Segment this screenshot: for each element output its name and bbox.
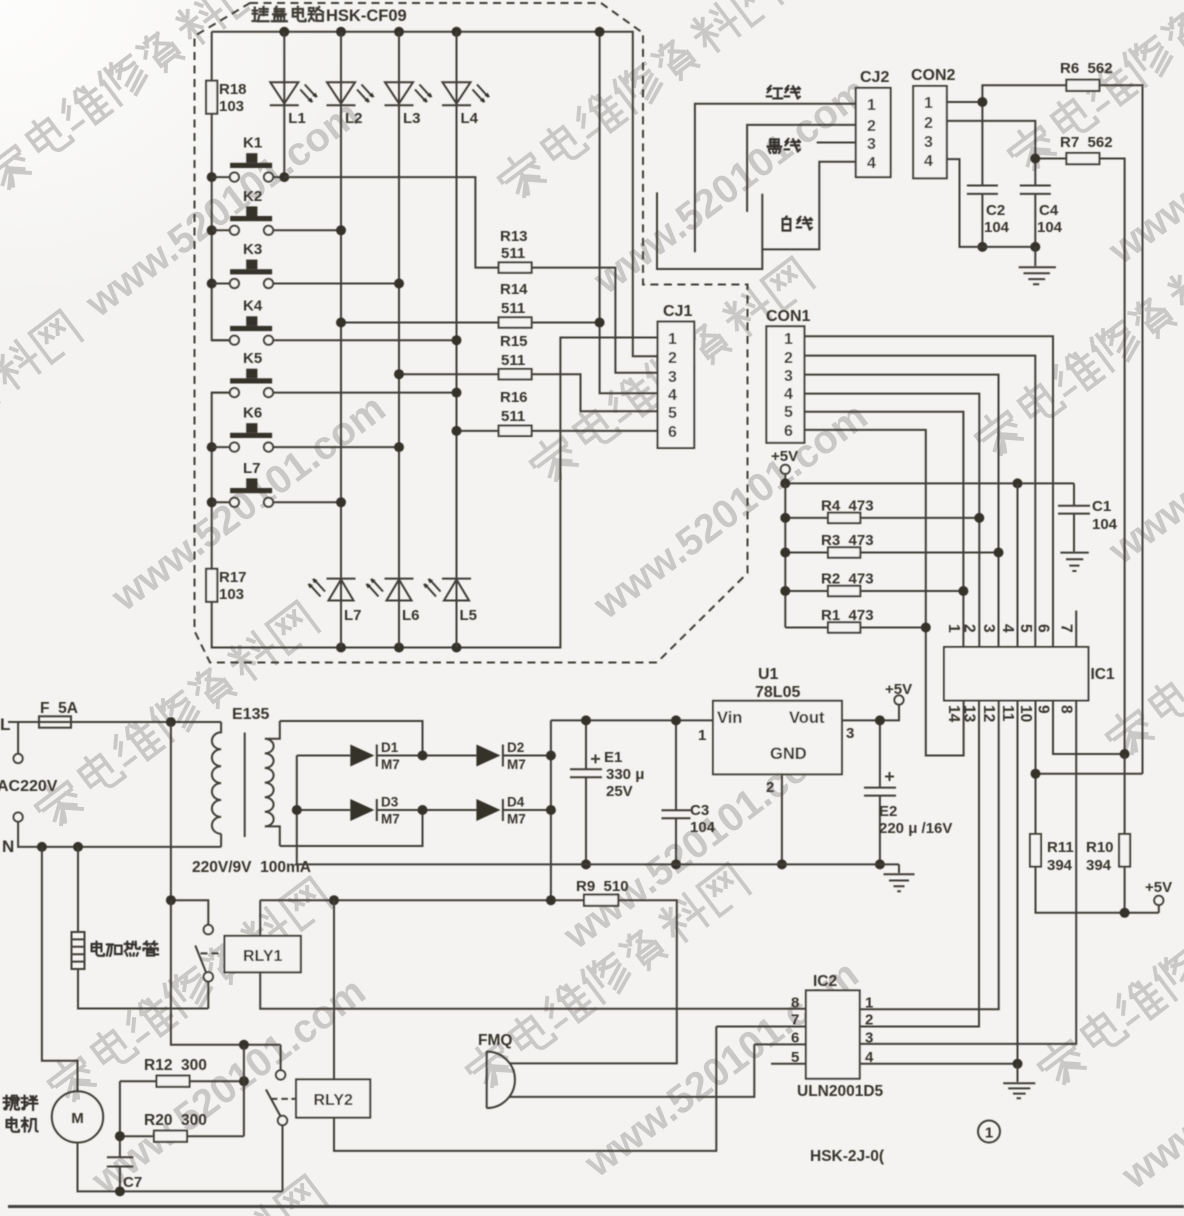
- node: key K3 column junction: [394, 279, 404, 289]
- svg-text:3: 3: [784, 368, 793, 385]
- svg-text:E2: E2: [879, 803, 897, 820]
- wire: motor bottom to RLY2 contact: [78, 1143, 283, 1192]
- LED L5: [425, 579, 472, 601]
- capacitor C2: [967, 102, 998, 247]
- wire: CON1 pin4 to IC1 pin2: [805, 394, 980, 647]
- resistor R15: [399, 374, 658, 411]
- ground symbol below C1: [1060, 553, 1088, 571]
- svg-text:11: 11: [999, 705, 1016, 722]
- svg-text:M7: M7: [507, 757, 526, 772]
- wire: bridge left (negative) leg: [297, 756, 351, 865]
- svg-text:+5V: +5V: [1145, 879, 1172, 896]
- resistor R16: [457, 430, 658, 432]
- wire: diode interconnects row2: [377, 809, 551, 811]
- note: circled 1 page marker: [978, 1121, 1000, 1143]
- wire: top rail drop to CJ1 pin4 (with R14 junction): [600, 32, 658, 393]
- wire: CON2 pin1 to C2/R6: [947, 101, 983, 103]
- svg-text:M7: M7: [381, 757, 400, 772]
- svg-text:R17: R17: [219, 569, 247, 586]
- svg-text:8: 8: [1058, 705, 1075, 714]
- wire: CJ2 pin3 stub: [817, 142, 856, 144]
- svg-text:6: 6: [1035, 624, 1052, 633]
- svg-text:CJ2: CJ2: [860, 69, 889, 86]
- node: key K2 column junction: [336, 225, 346, 235]
- resistor R10: [1124, 754, 1126, 913]
- wire: IC1 pin10 through R11 to +5V: [1036, 701, 1159, 913]
- wire: CON1 pin3 to IC1 pin3: [805, 375, 999, 647]
- svg-text:R16: R16: [500, 389, 528, 406]
- IC U?: microcontroller IC1: [944, 647, 1088, 701]
- svg-text:5: 5: [668, 405, 677, 422]
- relay contact switch for RLY2: [280, 1045, 282, 1070]
- LED L6: [367, 579, 414, 601]
- scan artifact bottom rule: [8, 1205, 1184, 1208]
- wire: K1 row to R13: [284, 177, 498, 268]
- svg-text:HSK-2J-0(: HSK-2J-0(: [810, 1148, 885, 1165]
- wire: relay coil supply rail with R9: [260, 900, 677, 1063]
- wire: L feed to RLY1 contact: [171, 900, 208, 925]
- svg-text:K4: K4: [243, 298, 263, 315]
- node: fuse output junction: [166, 717, 176, 727]
- svg-text:R6 562: R6 562: [1060, 60, 1113, 77]
- voltage regulator U1 78L05: [713, 701, 842, 775]
- svg-text:1: 1: [924, 95, 933, 112]
- capacitor C1: [1058, 483, 1090, 551]
- wire: neutral branch to motor: [42, 847, 78, 1091]
- motor M 搅拌电机: [52, 1091, 103, 1142]
- svg-text:L7: L7: [344, 607, 362, 624]
- resistor R17: [206, 569, 217, 602]
- svg-text:511: 511: [501, 352, 525, 369]
- svg-text:CJ1: CJ1: [663, 303, 692, 320]
- wire: secondary bottom to D3/D4 junction: [280, 810, 423, 846]
- wire: diode interconnects row1: [377, 755, 551, 757]
- svg-text:2: 2: [924, 115, 933, 132]
- wire: bridge right (positive) leg down to relay rail: [550, 720, 552, 900]
- wire: LED L1 column: [283, 32, 285, 177]
- node: rail junction dots: [279, 27, 289, 37]
- svg-text:5: 5: [784, 404, 793, 421]
- wire: pin10 node to R6 riser: [1036, 773, 1143, 775]
- svg-text:R14: R14: [500, 281, 528, 298]
- wire: +5V rail to C1: [785, 482, 1074, 484]
- svg-text:K6: K6: [243, 405, 262, 422]
- svg-text:M7: M7: [381, 812, 400, 827]
- svg-text:330 μ: 330 μ: [606, 766, 644, 783]
- resistor R11: [1030, 834, 1041, 867]
- svg-text:2: 2: [766, 779, 774, 796]
- svg-text:R1 473: R1 473: [821, 607, 874, 624]
- transformer E135 secondary winding: [265, 721, 280, 846]
- connector CJ1: [658, 322, 695, 448]
- svg-text:R2 473: R2 473: [821, 571, 874, 588]
- keyboard circuit HSK-CF09 dashed boundary box: [195, 3, 748, 663]
- svg-text:103: 103: [219, 586, 244, 603]
- svg-text:R3 473: R3 473: [821, 532, 874, 549]
- svg-text:C1: C1: [1092, 498, 1111, 515]
- label 黑线 (black wire): [768, 139, 800, 153]
- svg-text:5: 5: [1017, 624, 1034, 633]
- wire: neutral rail to transformer primary: [18, 822, 221, 847]
- wire: CJ2 pin2 lead: [747, 125, 856, 212]
- wire: R1-R4 left feed rail: [784, 483, 786, 627]
- wire: cable sheath outline: [657, 192, 762, 269]
- svg-text:2: 2: [867, 118, 876, 135]
- capacitor C7: [107, 1081, 133, 1191]
- label 红线 (red wire): [767, 86, 800, 99]
- label 白线 (white wire): [783, 217, 812, 231]
- svg-text:R4 473: R4 473: [821, 497, 874, 514]
- title label 键盘电路HSK-CF09: [253, 7, 324, 22]
- svg-text:12: 12: [980, 705, 997, 722]
- svg-text:4: 4: [924, 153, 933, 170]
- node: key K1 column junction: [279, 172, 289, 182]
- diode D4 M7: [476, 799, 500, 821]
- svg-text:C7: C7: [123, 1174, 142, 1191]
- wire: RLY1 coil leads: [260, 900, 806, 1009]
- svg-text:AC220V: AC220V: [0, 778, 58, 795]
- svg-text:+5V: +5V: [771, 448, 798, 465]
- svg-text:7: 7: [791, 1012, 799, 1029]
- svg-text:L: L: [0, 715, 10, 734]
- svg-text:HSK-CF09: HSK-CF09: [326, 7, 407, 25]
- svg-text:25V: 25V: [606, 783, 633, 800]
- svg-text:R9 510: R9 510: [576, 878, 629, 895]
- svg-text:Vout: Vout: [789, 709, 825, 727]
- relay RLY2 coil: [296, 1079, 370, 1117]
- relay RLY1 coil: [225, 936, 301, 972]
- svg-text:R20 300: R20 300: [144, 1112, 207, 1129]
- connector CON1: [766, 326, 804, 443]
- wire: L drop to RLY2 contact feed: [171, 900, 281, 1045]
- svg-text:3: 3: [980, 624, 997, 633]
- resistor R9 510: [584, 895, 618, 906]
- svg-text:ULN2001D5: ULN2001D5: [797, 1083, 884, 1100]
- svg-text:D1: D1: [381, 740, 399, 755]
- svg-text:104: 104: [1037, 219, 1063, 236]
- resistor R18: [212, 32, 230, 340]
- resistor R6: [982, 85, 1142, 773]
- LED L3: [385, 82, 432, 105]
- wire: IC1 pin11 to ground at IC2 pin4: [1017, 701, 1019, 1064]
- capacitor C3 104: [662, 720, 691, 864]
- svg-text:D3: D3: [381, 795, 399, 810]
- wire: U1 GND pin2 to ground rail: [781, 774, 783, 864]
- svg-text:C2: C2: [986, 202, 1005, 219]
- svg-text:FMQ: FMQ: [478, 1032, 512, 1049]
- wire: CON2 pin4 to capacitor ground rail: [947, 159, 1036, 247]
- svg-text:4: 4: [867, 155, 876, 172]
- wire: CJ2 pin4 white lead: [762, 162, 856, 250]
- svg-text:1: 1: [865, 994, 873, 1011]
- wire: mains L drop to relay area: [170, 722, 172, 900]
- svg-text:L1: L1: [288, 110, 306, 127]
- wire: RLY2 coil bottom lead to IC2 pin7: [334, 1027, 806, 1151]
- resistor R3: [785, 552, 998, 554]
- svg-text:3: 3: [867, 136, 876, 153]
- wire: LED L3/L6 column: [398, 32, 400, 648]
- svg-text:1: 1: [945, 624, 962, 633]
- svg-text:L3: L3: [403, 110, 421, 127]
- wire: CON1 pin5 to IC1 pin1: [805, 412, 964, 647]
- LED L7: [309, 579, 356, 601]
- svg-text:3: 3: [924, 134, 933, 151]
- svg-text:9: 9: [1035, 705, 1052, 714]
- wire: LED L2/L7 column: [340, 32, 342, 648]
- svg-text:RLY2: RLY2: [313, 1092, 353, 1109]
- resistor R13: [499, 262, 532, 272]
- svg-text:R13: R13: [500, 228, 528, 245]
- svg-text:13: 13: [961, 705, 978, 723]
- resistor R20 300: [120, 1135, 244, 1137]
- ground symbol at IC2 pin4: [1003, 1064, 1035, 1098]
- svg-text:6: 6: [791, 1029, 799, 1046]
- connector CJ2: [856, 88, 891, 177]
- LED L2: [327, 82, 374, 105]
- svg-text:220 μ /16V: 220 μ /16V: [879, 820, 952, 837]
- wire: left key rail lower segment with resistor R17: [212, 338, 658, 648]
- svg-text:6: 6: [668, 424, 677, 441]
- wire: U1 Vout to +5V: [842, 705, 899, 721]
- svg-text:103: 103: [219, 98, 244, 115]
- wire: RLY2 coil top lead from supply rail: [333, 900, 335, 1079]
- wire: IC1 pin13 to IC2 pin2: [860, 701, 979, 1027]
- svg-text:4: 4: [999, 624, 1016, 633]
- resistor R4: [785, 517, 979, 519]
- node: key K6 column junction: [394, 442, 404, 452]
- svg-text:2: 2: [865, 1012, 873, 1029]
- svg-text:R18: R18: [219, 81, 247, 98]
- svg-text:K2: K2: [243, 188, 262, 205]
- transformer E135 primary winding: [212, 722, 221, 834]
- capacitor E1 330u 25V electrolytic: [570, 720, 602, 864]
- wire: IC1 pin12 to IC2 pin1: [860, 701, 999, 1010]
- node: key K4 column junction: [452, 335, 462, 345]
- svg-text:C3: C3: [690, 802, 709, 819]
- svg-text:R11: R11: [1047, 839, 1074, 856]
- svg-text:104: 104: [1092, 516, 1118, 533]
- wire: CON2 pin2 to C4 column: [947, 121, 1051, 247]
- connector CON2: [913, 86, 947, 178]
- svg-text:2: 2: [961, 624, 978, 633]
- svg-text:C4: C4: [1039, 202, 1059, 219]
- svg-text:4: 4: [668, 387, 677, 404]
- resistor R2: [785, 590, 963, 592]
- LED L1: [270, 82, 317, 105]
- svg-text:511: 511: [501, 300, 525, 317]
- wire: LED L4/L5 column: [456, 32, 458, 648]
- svg-text:3: 3: [846, 725, 854, 742]
- svg-text:3: 3: [865, 1029, 873, 1046]
- wire: secondary top to D1/D2 junction: [280, 721, 423, 756]
- node: key L7 column junction: [336, 497, 346, 507]
- svg-text:L6: L6: [402, 607, 420, 624]
- wire: snubber node column: [243, 1045, 245, 1136]
- wire: unregulated + rail to U1 Vin: [551, 719, 713, 721]
- svg-text:K3: K3: [243, 241, 262, 258]
- svg-text:K1: K1: [243, 135, 262, 152]
- svg-text:394: 394: [1086, 857, 1112, 874]
- svg-text:220V/9V 100mA: 220V/9V 100mA: [192, 859, 311, 876]
- svg-text:4: 4: [784, 386, 793, 403]
- svg-text:RLY1: RLY1: [243, 948, 283, 965]
- wire: IC1 pin9 to R7 riser and R10: [1053, 701, 1125, 755]
- svg-text:511: 511: [501, 408, 525, 425]
- svg-text:1: 1: [985, 1125, 993, 1142]
- diode D1 M7: [350, 745, 374, 767]
- wire: CON1 pin2 to IC1 pin5: [805, 356, 1036, 647]
- wire: CON1 pin6 to R1 and IC1 pin14: [805, 430, 964, 756]
- svg-text:1: 1: [784, 331, 793, 348]
- diode D2 M7: [476, 745, 500, 767]
- svg-text:8: 8: [791, 994, 799, 1011]
- node: left rail dots: [207, 172, 217, 182]
- wire: FMQ bottom lead to IC2 pin6: [509, 1044, 806, 1097]
- resistor R7: [1035, 159, 1124, 755]
- heating element 电加热管: [78, 847, 208, 1009]
- svg-text:78L05: 78L05: [755, 684, 800, 701]
- svg-text:R15: R15: [500, 333, 528, 350]
- svg-text:M: M: [71, 1110, 84, 1127]
- node N: mains neutral terminal: [14, 813, 23, 822]
- svg-text:U1: U1: [758, 666, 779, 683]
- svg-text:104: 104: [984, 219, 1010, 236]
- resistor R1: [785, 627, 926, 629]
- svg-text:L4: L4: [461, 110, 479, 127]
- svg-text:104: 104: [690, 819, 716, 836]
- svg-text:L7: L7: [243, 460, 261, 477]
- svg-text:N: N: [2, 837, 14, 856]
- svg-text:D2: D2: [507, 740, 524, 755]
- svg-text:GND: GND: [770, 745, 807, 763]
- node: bottom rail dots: [336, 643, 346, 653]
- wire: CJ2 pin1 red lead: [695, 104, 856, 253]
- diode D3 M7: [350, 799, 374, 821]
- transformer E135 core: [244, 733, 246, 838]
- svg-text:10: 10: [1017, 705, 1034, 722]
- LED L4: [442, 82, 489, 105]
- svg-text:E135: E135: [232, 706, 269, 723]
- svg-text:1: 1: [668, 331, 677, 348]
- svg-text:7: 7: [1058, 624, 1075, 633]
- svg-text:L2: L2: [345, 110, 363, 127]
- wire: IC2 pin4 to ground: [860, 1063, 1018, 1065]
- svg-text:M7: M7: [507, 812, 526, 827]
- svg-text:3: 3: [668, 369, 677, 386]
- wire: R13 to CJ1 pin3: [532, 268, 658, 373]
- IC IC2 ULN2001D5 driver: [806, 990, 860, 1078]
- svg-text:CON2: CON2: [911, 67, 956, 84]
- svg-text:2: 2: [784, 350, 793, 367]
- relay contact switch for RLY1: [204, 925, 213, 934]
- svg-text:2: 2: [668, 350, 677, 367]
- wire: IC1 pin8 to IC2 pin3: [860, 701, 1076, 1044]
- svg-text:K5: K5: [243, 350, 262, 367]
- wire: IC2 pin5 stub: [771, 1063, 806, 1065]
- ground symbol below C2/C4: [1019, 247, 1056, 284]
- svg-text:1: 1: [698, 727, 706, 744]
- capacitor E2 220u/16V electrolytic: [864, 720, 896, 864]
- wire: CON1 pin1 to IC1 pin6: [805, 336, 1054, 647]
- svg-text:6: 6: [784, 423, 793, 440]
- svg-text:Vin: Vin: [717, 709, 742, 727]
- ground symbol at E2: [884, 864, 915, 891]
- wire: LED cathode top rail to CJ1 pin2: [212, 32, 658, 356]
- svg-text:394: 394: [1047, 857, 1073, 874]
- svg-text:R7 562: R7 562: [1060, 134, 1113, 151]
- svg-text:14: 14: [945, 705, 962, 723]
- node: key K5 column junction: [452, 388, 462, 398]
- resistor R12 300: [120, 1080, 244, 1082]
- svg-text:R10: R10: [1086, 839, 1114, 856]
- svg-text:R12 300: R12 300: [144, 1057, 207, 1074]
- wire: ground rail: [297, 863, 899, 865]
- svg-text:L5: L5: [460, 607, 478, 624]
- wire: +5V rail drop to IC1 pin4: [1017, 483, 1019, 647]
- svg-text:1: 1: [867, 97, 876, 114]
- IC1 pin 7 stub: [1075, 611, 1077, 648]
- resistor R14: [341, 322, 600, 324]
- svg-text:CON1: CON1: [766, 308, 811, 325]
- svg-text:F 5A: F 5A: [40, 700, 78, 717]
- svg-text:511: 511: [501, 245, 525, 262]
- svg-text:IC2: IC2: [813, 973, 837, 990]
- svg-text:IC1: IC1: [1091, 666, 1116, 683]
- svg-text:D4: D4: [507, 795, 525, 810]
- svg-text:E1: E1: [604, 749, 622, 766]
